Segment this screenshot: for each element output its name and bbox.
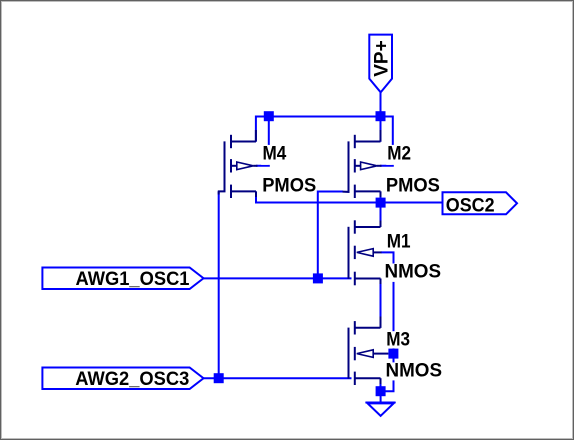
wire M2 source stub	[380, 191, 382, 202]
label M1 NMOS	[384, 262, 443, 283]
transistor M3 NMOS	[349, 317, 389, 386]
wire M2 drain stub	[380, 117, 382, 142]
svg-text:M4: M4	[263, 143, 287, 164]
ground	[365, 403, 395, 416]
svg-text:PMOS: PMOS	[386, 176, 440, 197]
node junction J2 rail-VP+	[376, 111, 386, 121]
wire M4 body to rail	[256, 117, 269, 166]
wire M1 source to M3 drain	[380, 279, 382, 328]
label M4	[261, 143, 288, 165]
transistor M4 PMOS	[218, 130, 258, 198]
power flag VP+	[369, 35, 392, 93]
svg-text:NMOS: NMOS	[385, 262, 442, 283]
wire M1 drain stub	[380, 203, 382, 228]
transistor M1 NMOS	[349, 220, 382, 285]
label M3 NMOS	[385, 360, 444, 381]
wire AWG2_OSC3 row	[204, 377, 352, 379]
input flag AWG1_OSC1	[42, 268, 203, 291]
svg-text:AWG2_OSC3: AWG2_OSC3	[75, 369, 189, 390]
wire ground stub	[380, 391, 382, 402]
node junction J6 M3 body	[388, 349, 398, 359]
label M2	[386, 143, 413, 165]
node junction J3 OSC2	[376, 198, 386, 208]
wire M2 gate to AWG1 net	[318, 192, 343, 279]
node junction J4 AWG1	[313, 273, 323, 283]
svg-text:M3: M3	[386, 329, 410, 350]
svg-text:M2: M2	[387, 143, 411, 164]
node junction J5 AWG2	[214, 373, 224, 383]
wire M3 source drop	[380, 378, 382, 391]
wire top rail VP+ node	[256, 117, 393, 166]
svg-text:OSC2: OSC2	[446, 195, 495, 216]
wire AWG1_OSC1 row	[204, 277, 352, 279]
output flag OSC2	[443, 192, 518, 216]
node junction J1 rail-M4	[264, 111, 274, 121]
wire M1 M3 body to ground node	[381, 252, 394, 391]
svg-text:VP+: VP+	[372, 40, 393, 77]
wire M4 gate to AWG2 net	[218, 191, 220, 378]
wire OSC2 output net	[256, 191, 443, 202]
wire VP+ flag stub	[380, 92, 382, 117]
svg-text:AWG1_OSC1: AWG1_OSC1	[76, 269, 190, 290]
svg-text:M1: M1	[387, 231, 411, 252]
label M3	[385, 329, 412, 350]
input flag AWG2_OSC3	[42, 368, 203, 391]
node junction J7 ground	[376, 386, 386, 396]
svg-text:NMOS: NMOS	[386, 360, 443, 381]
svg-text:PMOS: PMOS	[262, 176, 316, 197]
transistor M2 PMOS	[343, 130, 382, 198]
